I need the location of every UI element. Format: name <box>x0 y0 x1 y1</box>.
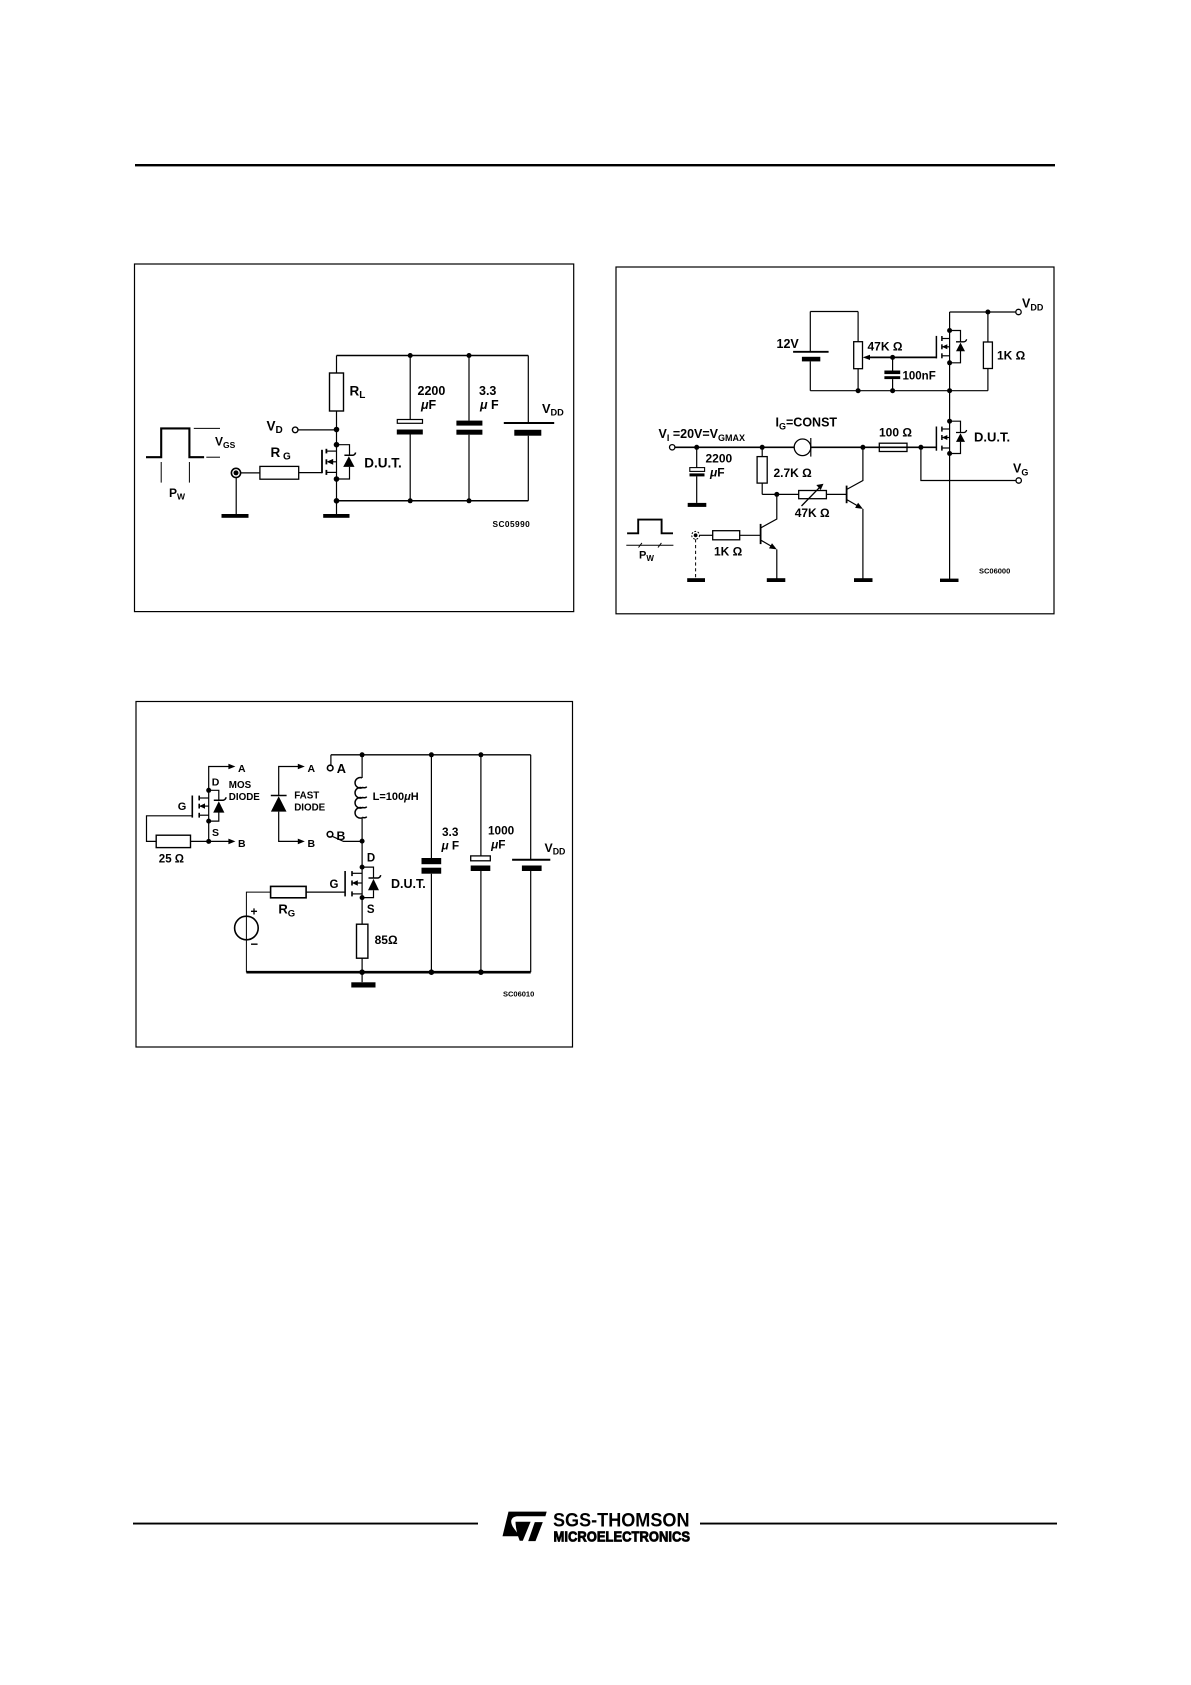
mosfet body stub arrow <box>942 437 950 439</box>
node B terminal main <box>327 832 333 838</box>
wire main input line right <box>811 446 937 448</box>
emitter wire down <box>776 549 778 578</box>
wire pot wiper arrow from gate <box>870 356 937 358</box>
capacitor 100nF plate bottom <box>884 376 900 379</box>
resistor 1K right wire top <box>987 312 989 342</box>
battery VDD c3 wire bottom <box>530 871 532 972</box>
footer rule right <box>700 1523 1057 1525</box>
node rail dot 1000uF bottom <box>478 969 484 975</box>
wire pulse baseline <box>626 544 673 546</box>
wire RG left to source <box>246 892 270 972</box>
node dot rail mosfet source <box>947 388 952 393</box>
resistor RL <box>330 373 344 411</box>
node drain junction dot <box>334 427 340 433</box>
svg-text:MICROELECTRONICS: MICROELECTRONICS <box>554 1529 691 1545</box>
wire source down to B junction <box>208 821 210 841</box>
svg-text:L=100μH: L=100μH <box>373 791 419 803</box>
wire 2.7K to 47K var <box>762 493 799 495</box>
mosfet body stub with arrow <box>331 461 337 463</box>
top rule <box>135 164 1055 166</box>
capacitor 2200uF c2 plate bottom <box>690 473 705 476</box>
capacitor 2200uF c2 plate top hollow <box>690 468 705 472</box>
wire channel line <box>949 421 951 453</box>
diode body triangle <box>956 433 965 442</box>
wire channel line <box>361 867 363 898</box>
mosfet gate bar <box>935 427 937 451</box>
mosfet gate bar <box>344 871 346 896</box>
svg-text:100 Ω: 100 Ω <box>879 426 912 440</box>
wire body diode branch <box>950 331 961 363</box>
node dot 2.7K <box>760 445 765 450</box>
current source IG circle <box>794 439 811 456</box>
diode triangle <box>271 796 287 811</box>
node drain dot <box>360 865 365 870</box>
node VI terminal <box>670 445 675 450</box>
svg-text:SGS-THOMSON: SGS-THOMSON <box>553 1510 690 1532</box>
ground left npn <box>767 578 786 582</box>
potentiometer 47K wire bottom <box>857 369 859 391</box>
node lower mosfet drain dot <box>947 419 952 424</box>
wire mosfet channel line <box>336 445 338 479</box>
transistor lower mosfet D.U.T. <box>936 419 1010 456</box>
svg-text:1K Ω: 1K Ω <box>714 545 743 559</box>
resistor RG c3 <box>271 886 307 897</box>
svg-text:3.3: 3.3 <box>479 384 496 398</box>
node mosfet drain dot <box>334 442 340 448</box>
wire source to bottom rail <box>336 479 338 514</box>
svg-text:47K Ω: 47K Ω <box>868 340 903 354</box>
svg-text:+: + <box>251 905 258 919</box>
wire 1K to base <box>740 534 761 536</box>
wire main input line left <box>675 446 794 448</box>
svg-text:μF: μF <box>490 838 505 852</box>
node rail dot 3.3uF bottom <box>429 969 435 975</box>
wire VGS level tick bottom <box>206 456 220 458</box>
diode body triangle <box>368 879 379 890</box>
svg-text:D: D <box>367 853 375 865</box>
resistor 2.7K wire top <box>761 447 763 456</box>
diode body zener bar <box>956 430 967 433</box>
wire 12V loop top <box>810 311 858 313</box>
node pulse terminal dashed <box>692 531 700 539</box>
svg-text:FAST: FAST <box>294 790 319 801</box>
svg-text:2200: 2200 <box>418 384 446 398</box>
base bar <box>760 524 762 544</box>
mosfet drain stub <box>352 872 362 874</box>
svg-text:A: A <box>337 761 346 776</box>
svg-text:−: − <box>251 937 259 952</box>
svg-text:G: G <box>330 879 339 891</box>
wire drain from VDD rail <box>949 312 951 363</box>
node source dot <box>206 819 211 824</box>
svg-text:1000: 1000 <box>488 824 515 838</box>
battery 12V long plate <box>793 351 829 353</box>
node source-B dot <box>206 839 211 844</box>
resistor 1K right wire bottom <box>987 369 989 391</box>
mosfet body stub arrow <box>352 882 362 884</box>
node bottom rail corner dot <box>334 498 340 504</box>
capacitor 2200uF wire top <box>409 356 411 420</box>
inductor L coil <box>355 778 362 819</box>
base bar <box>846 486 848 504</box>
wire PW dim line right <box>188 462 190 483</box>
node source dot <box>360 895 365 900</box>
mosfet source stub <box>942 447 950 449</box>
node A terminal main <box>327 765 333 771</box>
ground right npn <box>854 578 873 582</box>
mosfet channel segments <box>941 336 943 341</box>
mosfet gate bar <box>935 336 937 359</box>
node mosfet source dot <box>334 476 340 482</box>
wire 47K var right to base <box>826 493 846 495</box>
wire body diode branch <box>950 421 961 453</box>
node L bottom dot <box>360 839 365 844</box>
svg-text:MOS: MOS <box>229 780 252 791</box>
node drain dot <box>206 788 211 793</box>
diode FAST DIODE <box>271 763 326 850</box>
node bottom rail dot cap2 <box>467 498 472 503</box>
node dot 100nF top <box>890 355 895 360</box>
wire 85ohm to rail <box>361 958 363 972</box>
mosfet channel segments <box>198 796 200 801</box>
capacitor 1000uF c3 plate bottom <box>471 866 491 872</box>
transistor Q left npn <box>761 494 786 582</box>
wire terminal to ground <box>235 478 237 515</box>
wire ground stub <box>361 972 363 982</box>
ground mosfet source <box>323 514 349 518</box>
wire DUT source to ground <box>949 454 951 580</box>
capacitor 2200uF plate bottom <box>397 430 423 435</box>
resistor 100 ohm <box>879 443 907 451</box>
diode cathode bar <box>271 795 287 797</box>
resistor 85 ohm <box>357 924 368 958</box>
ground 2200uF c2 <box>688 503 707 507</box>
wire B to L bottom <box>332 836 362 841</box>
wire dashed down <box>695 539 697 578</box>
svg-text:D.U.T.: D.U.T. <box>364 455 402 470</box>
logo ST middle wedge <box>516 1522 531 1541</box>
pulse waveform c2 <box>627 520 673 534</box>
capacitor 3.3uF plate top <box>456 421 482 426</box>
resistor 47K variable <box>799 491 827 499</box>
collector <box>847 447 863 489</box>
node dot left transistor collector <box>774 492 779 497</box>
resistor RG <box>260 466 299 479</box>
inductor L=100uH wire top <box>361 755 363 778</box>
node upper mosfet drain dot <box>947 328 952 333</box>
battery VDD c3 short plate <box>522 866 542 872</box>
emitter <box>847 500 861 508</box>
transistor Q right npn <box>847 447 873 582</box>
wire channel line <box>208 790 210 821</box>
wire gate to 25ohm <box>147 816 193 842</box>
capacitor 1000uF c3 wire top <box>480 755 482 856</box>
svg-text:100nF: 100nF <box>903 371 936 383</box>
battery 12V short plate <box>802 357 820 362</box>
svg-text:G: G <box>178 801 187 813</box>
node dot right transistor collector <box>860 445 865 450</box>
mosfet source stub <box>352 893 362 895</box>
wire B junction to drain <box>361 841 363 867</box>
transistor D.U.T. c3 mosfet <box>330 841 426 916</box>
box frame circuit 3 <box>136 702 573 1048</box>
current source tick <box>810 438 812 457</box>
battery VDD wire bottom <box>527 436 529 501</box>
battery VDD c3 long plate <box>512 859 550 861</box>
svg-text:S: S <box>367 904 375 916</box>
mosfet gate bar <box>191 796 193 818</box>
svg-text:μF: μF <box>709 465 725 479</box>
svg-text:SC06000: SC06000 <box>979 567 1010 576</box>
svg-text:μF: μF <box>420 398 437 412</box>
wire DUT source to 85ohm <box>361 898 363 925</box>
svg-text:25 Ω: 25 Ω <box>159 854 184 866</box>
svg-text:B: B <box>308 838 316 850</box>
svg-text:12V: 12V <box>777 337 800 351</box>
node dot rail 100nF <box>890 388 895 393</box>
diode body triangle <box>956 343 965 352</box>
capacitor 1000uF c3 wire bottom <box>480 871 482 972</box>
node rail dot 3.3uF <box>429 752 434 757</box>
node top rail dot cap1 <box>408 353 413 358</box>
emitter wire down <box>862 509 864 579</box>
wire VG branch <box>921 447 1016 480</box>
wire VDD top rail <box>950 311 1016 313</box>
capacitor 3.3uF c3 plate top <box>422 858 442 864</box>
capacitor 2200uF c2 wire top <box>696 447 698 467</box>
svg-text:μ F: μ F <box>479 398 499 412</box>
box frame circuit 2 <box>616 267 1054 614</box>
node rail dot DUT <box>359 969 365 975</box>
svg-text:S: S <box>212 827 219 839</box>
node input terminal circuit1 <box>231 468 240 477</box>
wire 12V left down <box>809 312 811 352</box>
wire fast diode vertical top <box>279 767 298 796</box>
diode body triangle <box>213 801 224 812</box>
tick right <box>658 543 661 548</box>
battery VDD wire top <box>527 356 529 423</box>
wire VD to drain <box>298 429 337 431</box>
svg-text:3.3: 3.3 <box>442 825 459 839</box>
collector <box>761 494 777 528</box>
diode body triangle <box>343 456 354 467</box>
ground DUT source <box>940 579 959 582</box>
svg-text:1K Ω: 1K Ω <box>997 349 1026 363</box>
svg-text:2.7K Ω: 2.7K Ω <box>774 466 813 480</box>
resistor 2.7K <box>757 457 767 484</box>
node lower mosfet source dot <box>947 451 952 456</box>
logo ST parallelogram S-part <box>503 1512 547 1537</box>
battery VDD c3 wire top <box>530 755 532 860</box>
svg-text:μ F: μ F <box>441 839 460 853</box>
wire RG to gate <box>306 891 345 893</box>
resistor 25 ohm <box>156 835 190 847</box>
battery VDD short plate <box>514 430 541 436</box>
svg-text:B: B <box>238 838 246 850</box>
capacitor 1000uF c3 plate top hollow <box>471 856 491 861</box>
wire upper source to lower drain <box>949 363 951 421</box>
wire arrow B <box>209 840 229 842</box>
capacitor 3.3uF c3 plate bottom <box>422 868 442 874</box>
emitter <box>761 540 775 548</box>
svg-text:A: A <box>238 763 246 775</box>
wire body diode branch <box>209 790 219 821</box>
wire bottom rail c3 <box>246 971 530 974</box>
svg-text:85Ω: 85Ω <box>375 933 398 947</box>
diode body zener bar <box>956 339 967 342</box>
wire terminal to RG <box>241 472 260 474</box>
mosfet drain stub <box>326 450 336 452</box>
box frame circuit 1 <box>135 264 574 612</box>
wire drain up and arrow A <box>209 767 229 791</box>
node top rail dot cap2 <box>467 353 472 358</box>
wire PW dim line left <box>160 462 162 483</box>
diode body zener bar <box>369 875 381 878</box>
wire bottom rail <box>337 500 529 502</box>
node dot 1K top <box>985 310 990 315</box>
svg-text:47K Ω: 47K Ω <box>795 506 830 520</box>
mosfet body stub arrow <box>942 346 950 348</box>
wire source to bottom rail <box>246 971 362 973</box>
footer rule left <box>133 1523 478 1525</box>
mosfet source stub <box>326 471 336 473</box>
node bottom rail dot cap1 <box>408 498 413 503</box>
wire 25ohm to source junction <box>191 840 209 842</box>
resistor 1K pulse <box>713 531 740 540</box>
source VGS generator circle <box>235 916 259 940</box>
ground input terminal <box>222 514 249 518</box>
pulse generator waveform <box>146 428 204 457</box>
potentiometer 47K body <box>854 342 863 369</box>
tick left <box>639 543 642 548</box>
potentiometer 47K wire top <box>857 312 859 342</box>
mosfet source stub <box>942 355 950 357</box>
mosfet channel segments <box>325 449 327 454</box>
diode body zener cathode bar <box>344 453 355 456</box>
arrow 47K variable <box>802 487 820 506</box>
svg-text:DIODE: DIODE <box>229 792 260 803</box>
wire A stub to rail <box>330 755 332 766</box>
node upper mosfet source dot <box>947 360 952 365</box>
capacitor 2200uF plate top (hollow) <box>397 420 422 424</box>
wire body diode branch <box>337 445 350 479</box>
wire RL bottom to drain <box>336 411 338 445</box>
transistor upper mosfet <box>936 312 966 365</box>
battery VDD long plate <box>504 422 554 424</box>
inductor L wire bottom <box>361 818 363 841</box>
mosfet source stub <box>199 814 209 816</box>
svg-text:DIODE: DIODE <box>294 802 325 813</box>
svg-text:D: D <box>212 776 220 788</box>
svg-text:A: A <box>308 763 316 775</box>
mosfet channel segments <box>351 871 353 876</box>
transistor D.U.T. mosfet circuit1 <box>322 442 402 482</box>
diode body zener bar <box>214 797 226 800</box>
capacitor 100nF wire bottom <box>892 379 894 391</box>
node rail dot 1000uF <box>478 752 483 757</box>
mosfet drain stub <box>199 797 209 799</box>
transistor MOS DIODE mosfet <box>147 763 261 866</box>
logo ST T-stem <box>528 1522 543 1541</box>
node VD terminal <box>292 427 298 433</box>
mosfet drain stub <box>942 338 950 340</box>
svg-text:D.U.T.: D.U.T. <box>391 877 426 891</box>
node dot rail 47K <box>856 388 861 393</box>
wire terminal to 1K <box>700 534 713 536</box>
mosfet body stub arrow <box>199 805 209 807</box>
mosfet channel segments <box>941 427 943 432</box>
ground dashed terminal <box>687 578 705 582</box>
svg-text:SC05990: SC05990 <box>493 519 531 529</box>
capacitor 3.3uF plate bottom <box>456 430 482 435</box>
node VG terminal <box>1016 478 1021 483</box>
svg-text:SC06010: SC06010 <box>503 990 534 999</box>
capacitor 2200uF wire bottom <box>409 435 411 501</box>
wire top rail <box>337 355 529 357</box>
mosfet drain stub <box>942 428 950 430</box>
capacitor 3.3uF wire top <box>468 356 470 421</box>
capacitor 3.3uF c3 wire bottom <box>430 874 432 973</box>
resistor 1K right <box>983 342 992 369</box>
svg-text:D.U.T.: D.U.T. <box>974 430 1010 445</box>
capacitor 3.3uF c3 wire top <box>430 755 432 858</box>
capacitor 100nF plate top <box>884 371 900 375</box>
capacitor 3.3uF wire bottom <box>468 435 470 501</box>
capacitor 2200uF c2 wire bottom <box>696 476 698 503</box>
node dot 2200uF <box>694 445 699 450</box>
resistor 2.7K wire bottom <box>761 483 763 494</box>
wire RG to gate <box>299 472 322 474</box>
node VDD terminal <box>1016 309 1021 314</box>
wire VGS level tick top <box>194 427 220 429</box>
wire fast diode vertical bottom <box>279 812 298 842</box>
mosfet gate bar <box>321 450 323 473</box>
wire top rail c3 <box>331 754 531 756</box>
node rail dot L <box>360 752 365 757</box>
wire bottom rail of upper loop <box>810 390 988 392</box>
wire body diode branch <box>362 867 373 898</box>
wire RL top <box>336 356 338 374</box>
svg-text:2200: 2200 <box>706 452 733 466</box>
capacitor 100nF wire top <box>892 357 894 370</box>
battery 12V wire bottom <box>809 361 811 390</box>
ground c3 <box>351 982 375 987</box>
node dot VG branch <box>918 445 923 450</box>
